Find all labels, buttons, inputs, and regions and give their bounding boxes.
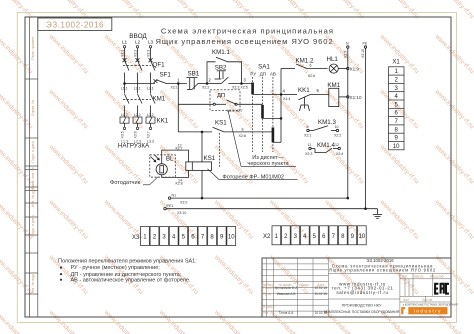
svg-text:Утв.: Утв. — [263, 311, 269, 315]
svg-text:Инв. № дубл.: Инв. № дубл. — [31, 185, 35, 207]
DP contact — [213, 100, 262, 105]
svg-text:KM1.4: KM1.4 — [317, 142, 335, 149]
svg-text:ДП: ДП — [217, 93, 225, 99]
svg-text:N1: N1 — [172, 193, 177, 197]
svg-text:Подп.: Подп. — [301, 283, 310, 287]
svg-text:10: 10 — [335, 125, 339, 129]
svg-text:ДП: ДП — [260, 71, 266, 76]
wires KK1 to load terminals — [125, 123, 151, 127]
svg-text:X2:1: X2:1 — [171, 85, 178, 89]
wires input to QF1 — [125, 48, 151, 61]
EAC mark — [435, 284, 449, 294]
mode switch SA1 — [250, 64, 276, 77]
svg-text:X2:9: X2:9 — [344, 51, 348, 58]
svg-text:SB1: SB1 — [188, 71, 200, 78]
production cell — [324, 304, 399, 315]
thermal trip contact KK1 — [299, 94, 311, 111]
aux contact KM1.2 — [296, 64, 328, 69]
svg-text:Лит.: Лит. — [402, 275, 408, 279]
label НАГРУЗКА — [118, 143, 150, 150]
svg-text:KM1: KM1 — [327, 82, 340, 89]
signal lamp HL1 — [329, 64, 338, 73]
svg-text:Иванова А.В.: Иванова А.В. — [277, 292, 297, 296]
svg-text:АВ - автоматическое управление: АВ - автоматическое управление от фоторе… — [71, 277, 191, 283]
title line 1 — [161, 27, 334, 36]
svg-text:Лист: Лист — [403, 298, 410, 302]
svg-text:X2: X2 — [263, 234, 271, 240]
phase labels L1 L2 L3 — [122, 40, 154, 45]
svg-text:Фотодатчик: Фотодатчик — [110, 180, 141, 186]
photo sensor BL — [151, 155, 168, 175]
svg-text:X1:10: X1:10 — [350, 95, 362, 100]
wires KM1 to KK1 — [125, 106, 151, 118]
SA1 contact bar AV — [272, 127, 275, 142]
svg-text:Разраб.: Разраб. — [263, 286, 275, 290]
svg-text:QF1: QF1 — [153, 62, 166, 69]
svg-text:X2:8: X2:8 — [239, 134, 246, 138]
svg-text:10: 10 — [393, 144, 400, 150]
svg-text:L2: L2 — [135, 40, 141, 45]
svg-text:Ящик управления освещением ЯУО: Ящик управления освещением ЯУО 9602 — [156, 37, 334, 46]
KS1 coil feed from control row — [201, 132, 203, 162]
svg-text:X1:4: X1:4 — [283, 97, 290, 101]
svg-text:KS1: KS1 — [215, 119, 227, 126]
label Фотодатчик with leader — [110, 177, 158, 186]
wires QF1 to KM1 — [125, 73, 151, 94]
BL wiring to KS1 coil — [162, 150, 189, 177]
svg-text:Ящик управления освещением ЯУО: Ящик управления освещением ЯУО 9602 — [329, 268, 436, 273]
industry logo — [401, 303, 458, 314]
svg-text:L3.2: L3.2 — [147, 113, 154, 117]
svg-text:X2:10: X2:10 — [361, 49, 365, 58]
svg-text:X3:5: X3:5 — [120, 131, 124, 138]
svg-text:L1.1: L1.1 — [121, 87, 128, 91]
svg-text:L2.1: L2.1 — [134, 87, 141, 91]
note Iz dispetcherskogo punkta — [241, 155, 296, 167]
wire 14 label — [176, 178, 183, 185]
label ВВОД — [129, 33, 147, 40]
svg-text:Н.контр.: Н.контр. — [263, 305, 275, 309]
svg-text:BL: BL — [166, 157, 174, 163]
connector X1 — [392, 60, 400, 66]
PE horizontal wire — [164, 208, 378, 210]
svg-text:Подп. и дата: Подп. и дата — [31, 141, 35, 162]
svg-text:НАГРУЗКА: НАГРУЗКА — [118, 143, 150, 150]
top-left document number stamp — [38, 18, 112, 31]
svg-text:L1.2: L1.2 — [121, 113, 128, 117]
input terminals X3:1 X3:2 X3:3 — [123, 46, 151, 48]
svg-text:KK1: KK1 — [157, 118, 169, 125]
contactor coil KM1 — [329, 88, 339, 106]
wire node4 up to KM1.2 — [281, 68, 295, 70]
scheme name in title block — [329, 263, 436, 272]
aux contact KM1.3 — [307, 126, 339, 132]
svg-text:L3: L3 — [148, 40, 154, 45]
svg-text:X2:1: X2:1 — [304, 134, 311, 138]
contacts cell — [332, 281, 394, 294]
svg-text:X2:4: X2:4 — [336, 152, 343, 156]
ground symbol — [373, 209, 382, 219]
svg-text:11: 11 — [308, 143, 312, 147]
SA1 contact bar DP — [261, 105, 264, 119]
svg-text:10.02.16: 10.02.16 — [314, 292, 327, 296]
svg-text:Из диспет—: Из диспет— — [252, 155, 284, 161]
svg-text:PE1: PE1 — [167, 204, 174, 208]
svg-text:industry: industry — [414, 309, 442, 314]
label Фотореле ФР-М01/М02 with leader — [208, 169, 298, 181]
svg-text:6: 6 — [310, 64, 312, 68]
push button SB2 — [214, 71, 228, 84]
photo relay coil KS1 — [186, 162, 212, 171]
svg-text:К2:7: К2:7 — [176, 146, 183, 150]
svg-text:Масса: Масса — [414, 275, 424, 279]
document number in title block — [366, 258, 394, 263]
svg-text:L1: L1 — [122, 40, 128, 45]
N wire terminal and vertical — [347, 46, 349, 198]
notes about SA1 positions — [58, 258, 197, 283]
svg-text:Подп. и дата: Подп. и дата — [31, 215, 35, 236]
left margin stamp column — [25, 17, 38, 317]
node 2 — [202, 77, 212, 89]
svg-text:X2:2: X2:2 — [202, 85, 209, 89]
svg-text:Титов А.А.: Титов А.А. — [279, 311, 295, 315]
svg-text:10.02.16: 10.02.16 — [314, 286, 327, 290]
svg-text:KK1: KK1 — [298, 87, 310, 94]
svg-text:X3:2: X3:2 — [133, 50, 137, 57]
KS1 photo relay contact row — [178, 127, 273, 132]
KS1 mechanical link — [219, 133, 221, 167]
svg-text:sales@industry-rf.ru: sales@industry-rf.ru — [336, 290, 388, 295]
svg-text:X2:6 X2:7: X2:6 X2:7 — [227, 109, 243, 113]
KS1 coil to N wire — [201, 170, 203, 198]
title block grid — [262, 258, 451, 317]
aux contact KM1.1 bypass — [207, 57, 242, 82]
svg-text:KM1: KM1 — [153, 96, 166, 103]
PE wire terminal and vertical — [364, 46, 366, 209]
svg-text:10: 10 — [228, 235, 235, 241]
svg-text:Листов: Листов — [422, 298, 433, 302]
SA1 contact bar RU — [251, 83, 254, 95]
svg-text:РУ: РУ — [250, 71, 256, 76]
leader to note Iz dispetcherskogo punkta — [228, 110, 241, 166]
wire node1 down and to DP box — [178, 84, 213, 132]
svg-text:Справ. №: Справ. № — [31, 100, 35, 116]
svg-text:РУ - ручное (местное) управлен: РУ - ручное (местное) управление; — [71, 265, 161, 271]
terminal strip X3 — [132, 235, 140, 241]
svg-text:ПРОИЗВОДСТВО НКУ: ПРОИЗВОДСТВО НКУ — [342, 304, 382, 308]
svg-text:SB2: SB2 — [215, 64, 227, 71]
svg-text:Мельников М.А.: Мельников М.А. — [275, 286, 299, 290]
header row Izm List N dokum Podp Data — [261, 283, 324, 287]
svg-text:L2.2: L2.2 — [134, 113, 141, 117]
SF1 branch wire — [125, 83, 156, 85]
node 5 wire to KM1 coil — [311, 93, 329, 95]
svg-text:X3: X3 — [132, 235, 140, 241]
svg-text:Перв. примен.: Перв. примен. — [31, 36, 35, 60]
svg-text:X2:3: X2:3 — [305, 152, 312, 156]
terminal strip X2 — [263, 234, 271, 240]
svg-text:KM1.1: KM1.1 — [212, 49, 230, 56]
wire labels L1.3 L2.3 L3.3 — [121, 140, 154, 144]
svg-text:АВ: АВ — [270, 71, 276, 76]
breaker SF1 — [154, 79, 167, 83]
svg-text:X3:3: X3:3 — [146, 50, 150, 57]
svg-text:Инв. № подл.: Инв. № подл. — [31, 272, 35, 294]
svg-text:X3:10: X3:10 — [177, 211, 186, 215]
svg-text:X3:9: X3:9 — [180, 200, 187, 204]
svg-text:К2:6: К2:6 — [308, 74, 315, 78]
load terminals X3:5 X3:6 X3:7 — [123, 127, 151, 129]
node 3 — [232, 78, 248, 90]
photo sensor dashed box — [150, 155, 176, 177]
wire labels L1.2 L2.2 L3.2 — [121, 113, 154, 117]
svg-text:X1:9: X1:9 — [350, 67, 360, 72]
svg-text:X3:7: X3:7 — [146, 131, 150, 138]
left margin rotated labels — [31, 36, 35, 294]
aux contact KM1.4 — [309, 147, 341, 152]
svg-text:X2:2: X2:2 — [334, 134, 341, 138]
dispatcher contact box DP — [210, 90, 240, 111]
svg-text:X3:1: X3:1 — [120, 50, 124, 57]
junction on L1 to SF1 branch — [123, 82, 126, 85]
wire 13 label — [176, 144, 183, 151]
svg-text:8: 8 — [242, 127, 244, 131]
svg-text:10: 10 — [359, 234, 366, 240]
svg-text:SF1: SF1 — [160, 72, 172, 79]
wire node4 to KK1 trip contact — [281, 93, 297, 95]
svg-text:HL1: HL1 — [327, 56, 339, 63]
push button SB1 — [187, 78, 199, 90]
thermal relay KK1 heaters — [120, 117, 155, 123]
svg-text:КОМПЛЕКСНЫЕ ПОСТАВКИ ОБОРУДОВА: КОМПЛЕКСНЫЕ ПОСТАВКИ ОБОРУДОВАНИЯ — [324, 310, 399, 314]
svg-text:Схема электрическая принципиал: Схема электрическая принципиальная — [161, 27, 334, 36]
wire labels L1.1 L2.1 L3.1 — [121, 87, 154, 91]
svg-text:X1: X1 — [392, 60, 400, 66]
lamp to X1:9 — [338, 67, 349, 69]
svg-text:ЭЗ.1002-2016: ЭЗ.1002-2016 — [46, 21, 104, 30]
svg-text:Положения переключателя режимо: Положения переключателя режимов управлен… — [58, 258, 197, 264]
svg-text:9: 9 — [307, 125, 309, 129]
svg-text:KS1: KS1 — [204, 155, 216, 162]
svg-text:12: 12 — [335, 143, 339, 147]
svg-text:L3.1: L3.1 — [147, 87, 154, 91]
N horizontal wire — [168, 197, 347, 199]
circuit breaker QF1 — [123, 58, 156, 70]
node 4 — [280, 89, 291, 120]
wire SB2 to node 3 — [228, 83, 252, 85]
node 1 — [171, 77, 181, 89]
svg-text:X2:3 X2:5: X2:3 X2:5 — [232, 85, 248, 89]
svg-text:X3:6: X3:6 — [133, 131, 137, 138]
wire SB1 to node 2 — [199, 83, 215, 85]
svg-text:Масштаб: Масштаб — [430, 275, 444, 279]
title block frame — [262, 258, 451, 317]
lit massa masshtab headers — [402, 275, 444, 302]
svg-text:PE: PE — [363, 42, 368, 46]
signature rows — [263, 286, 327, 315]
svg-text:К2:8: К2:8 — [176, 182, 183, 186]
contactor KM1 main contacts — [123, 94, 155, 104]
title line 2 — [156, 37, 334, 46]
svg-text:● КОМПЛЕКСНЫЕ ПОСТАВКИ ОБОРУД: ● КОМПЛЕКСНЫЕ ПОСТАВКИ ОБОРУДОВАНИЯ — [403, 303, 458, 306]
wire SF1 to node 1 — [166, 83, 187, 85]
svg-text:ЭЗ.1002-2016: ЭЗ.1002-2016 — [366, 258, 394, 263]
coil to X1:10 — [339, 96, 349, 98]
svg-text:Пров.: Пров. — [263, 292, 272, 296]
SA1 output wires to node 4 bus — [253, 69, 281, 143]
svg-text:SA1: SA1 — [258, 64, 270, 71]
